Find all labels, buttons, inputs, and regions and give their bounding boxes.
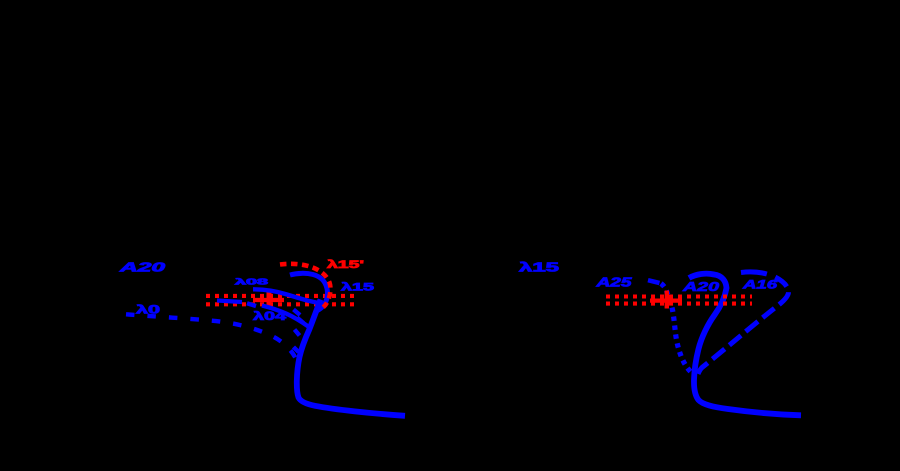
svg-text:A16: A16 [741, 278, 777, 292]
curve lambda08 (blue solid, joins junction) [253, 289, 318, 303]
svg-text:λ04: λ04 [253, 311, 287, 323]
curve lambda0 (blue dashed long) [126, 314, 298, 364]
red plus marker (right panel) [650, 299, 682, 303]
curve A25 (blue dotted) [661, 284, 693, 375]
curve lambda15' (red dashed hook) [280, 264, 330, 307]
svg-text:A25: A25 [595, 276, 633, 290]
red dotted ignition band upper row (right panel) [606, 294, 752, 298]
curve A16 (blue dashed hook) [698, 272, 789, 374]
curve lambda15 (blue solid hook) [290, 273, 327, 310]
curve lambda04 (blue solid, joins track) [262, 306, 309, 328]
red dotted ignition band lower row (left panel) [206, 302, 357, 306]
svg-text:A20: A20 [118, 261, 165, 275]
curve A20 (blue solid with top hook, elbow and tail) [689, 274, 801, 416]
wiggle 2 on main track [297, 318, 304, 324]
svg-text:λ08: λ08 [235, 277, 269, 287]
wiggle 4 on main track [294, 347, 299, 352]
red dotted ignition band upper row (left panel) [206, 294, 357, 298]
curve lambda08 short left segment [217, 301, 242, 303]
svg-text:λ0: λ0 [136, 305, 160, 317]
wiggle 3 on main track [295, 330, 300, 336]
curve A25 leading dash [648, 280, 660, 283]
red dotted ignition band lower row (right panel) [606, 302, 752, 306]
curve lambda04 stub dash near band [247, 303, 256, 306]
main track (left panel, blue solid descending with elbow and tail) [297, 300, 405, 416]
svg-text:λ15: λ15 [341, 282, 374, 294]
svg-text:A20: A20 [681, 279, 720, 294]
svg-text:λ15: λ15 [519, 261, 559, 275]
svg-text:λ15': λ15' [327, 259, 365, 271]
wiggle 1 on main track [294, 310, 301, 316]
red plus marker (left panel) [253, 298, 284, 302]
